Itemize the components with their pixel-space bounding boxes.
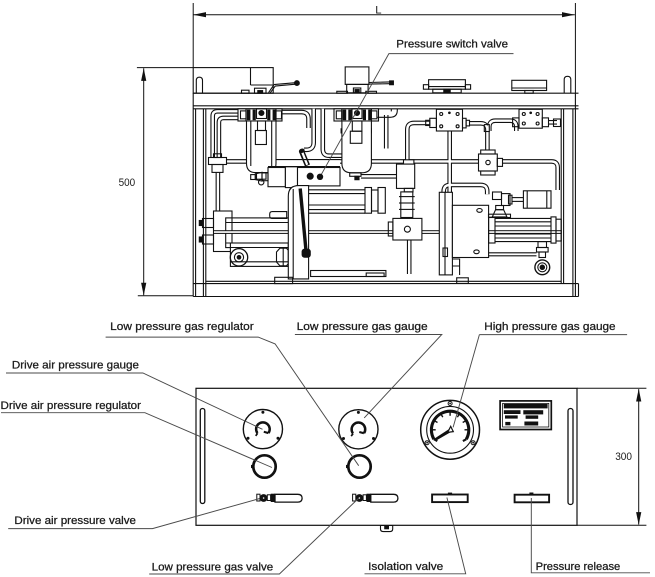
svg-text:High pressure gas gauge: High pressure gas gauge	[484, 321, 615, 333]
svg-text:Drive air pressure gauge: Drive air pressure gauge	[12, 360, 139, 372]
svg-text:500: 500	[119, 177, 136, 189]
svg-text:300: 300	[615, 451, 632, 463]
svg-text:Low pressure gas valve: Low pressure gas valve	[152, 561, 273, 573]
svg-text:Isolation valve: Isolation valve	[368, 561, 443, 573]
svg-text:L: L	[375, 4, 381, 16]
svg-text:Pressure switch valve: Pressure switch valve	[396, 39, 508, 51]
svg-text:Low pressure gas regulator: Low pressure gas regulator	[110, 321, 254, 333]
svg-text:Low pressure gas gauge: Low pressure gas gauge	[297, 321, 428, 333]
svg-text:Pressure release: Pressure release	[536, 561, 621, 573]
svg-text:Drive air pressure regulator: Drive air pressure regulator	[1, 400, 142, 412]
svg-text:Drive air pressure valve: Drive air pressure valve	[14, 515, 136, 527]
